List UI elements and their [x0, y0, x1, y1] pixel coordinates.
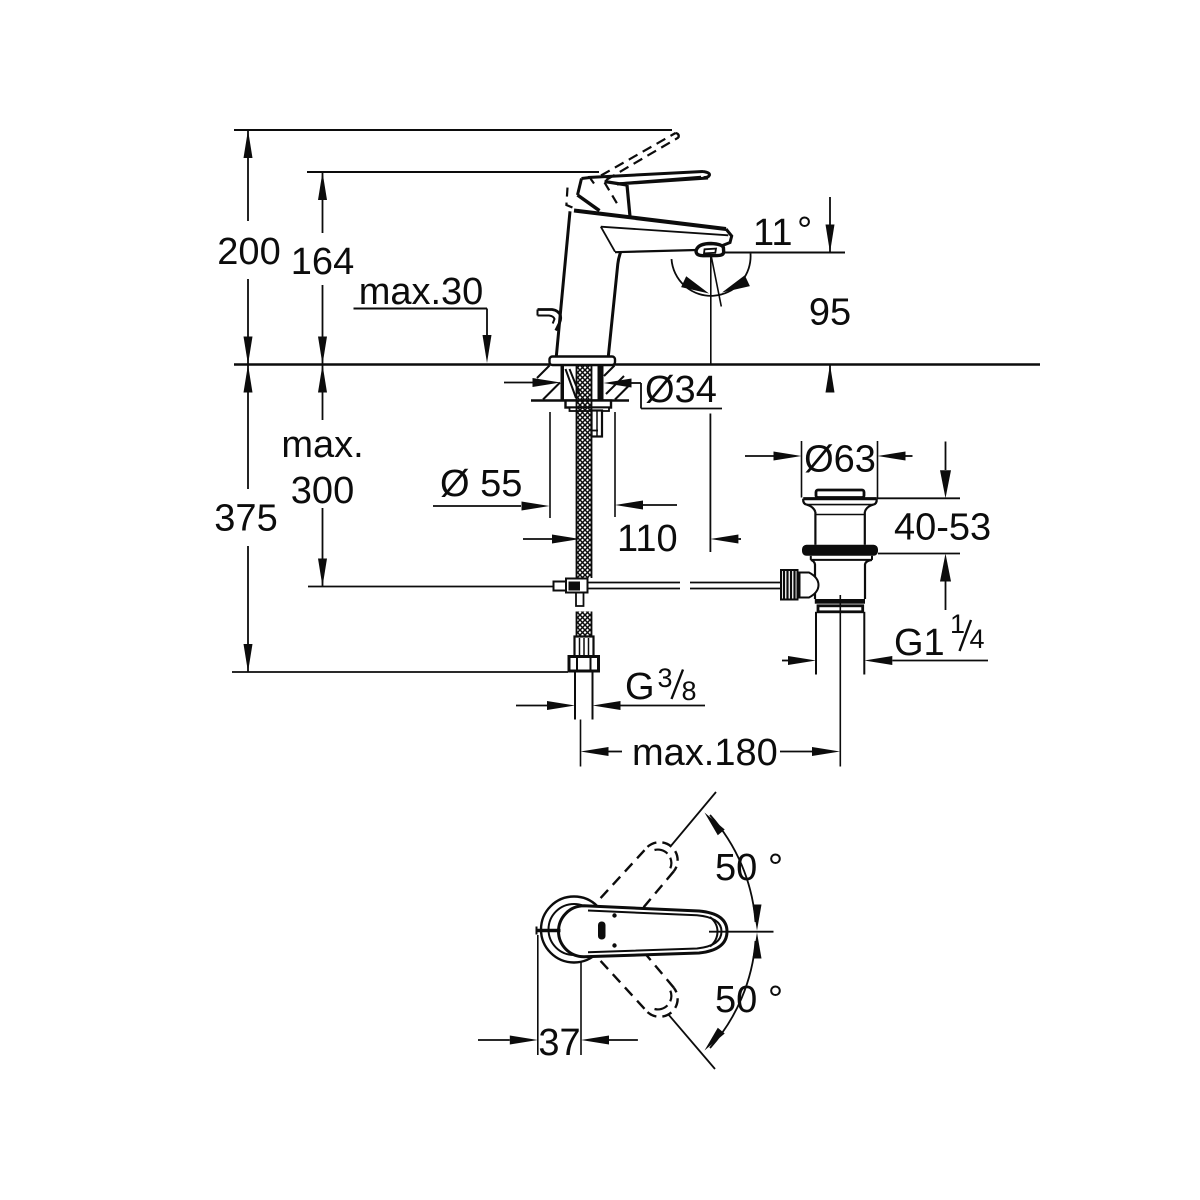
svg-text:164: 164: [291, 241, 354, 283]
spout angle reference line: [723, 252, 846, 254]
countertop hatching right: [604, 366, 615, 377]
svg-text:37: 37: [538, 1022, 580, 1064]
svg-text:375: 375: [214, 498, 277, 540]
svg-text:110: 110: [617, 518, 678, 560]
drain gasket bottom reference line: [878, 553, 960, 555]
plan view 50deg lower arc: [710, 941, 756, 1048]
dimension diameter34 line: [504, 382, 533, 384]
pop-up rod left end cap: [554, 582, 567, 591]
drain body lower ring outline: [818, 606, 863, 612]
dimension diameter55 extension lines: [549, 412, 551, 518]
svg-text:3: 3: [658, 663, 673, 693]
hose connection nut: [569, 657, 599, 672]
countertop reference line: [234, 363, 1040, 365]
faucet top face: [605, 182, 628, 186]
shank thread lines: [566, 369, 577, 398]
mounting washer: [566, 401, 612, 408]
drain side knurled knob: [781, 570, 798, 600]
dimension 37 line: [478, 1039, 510, 1041]
drain tailpipe: [815, 612, 817, 675]
dimension 37 extension lines: [537, 935, 539, 1055]
flexible hose upper braid: [577, 366, 592, 579]
dimension 40-53 line: [945, 442, 947, 471]
countertop bottom line: [531, 399, 629, 401]
outlet centerline extension below deck: [709, 414, 711, 553]
svg-text:95: 95: [809, 292, 851, 334]
svg-text:Ø 55: Ø 55: [440, 463, 522, 505]
dimension 200 line: [247, 130, 249, 221]
plan view 50deg upper line: [670, 792, 716, 847]
aerator: [696, 244, 724, 256]
svg-text:max.: max.: [281, 424, 363, 466]
countertop hatching left: [537, 366, 550, 379]
dimension diameter63 line: [745, 455, 774, 457]
svg-text:G1: G1: [894, 622, 945, 664]
plan view handle inner contour: [588, 911, 722, 953]
plan view body outer circle: [541, 897, 607, 963]
svg-text:300: 300: [291, 470, 354, 512]
faucet body right edge: [608, 253, 620, 357]
svg-text:max.180: max.180: [632, 732, 778, 774]
spout inner top line: [601, 227, 729, 236]
spout inner left chamfer: [601, 227, 615, 252]
handle root left edge: [578, 179, 582, 196]
dimension 95 line: [829, 197, 831, 253]
drain centerline: [839, 595, 841, 767]
pop-up horizontal rod left segment: [588, 582, 681, 584]
pop-up rod socket: [592, 411, 603, 437]
handle lever tip: [703, 172, 709, 178]
svg-text:40-53: 40-53: [894, 507, 991, 549]
dimension diameter34 leader: [640, 383, 642, 409]
dimension max.300 line: [322, 365, 324, 421]
svg-text:1: 1: [950, 609, 965, 639]
svg-text:4: 4: [970, 624, 985, 654]
plan view handle: [559, 906, 727, 957]
plan view raised handle ghost upper: [601, 847, 648, 898]
plan view handle slot: [598, 922, 606, 940]
plan view 50deg upper arc: [710, 815, 756, 922]
handle root lower diagonal: [578, 195, 600, 211]
handle root top edge: [582, 176, 590, 180]
flexible hose lower braid: [577, 612, 592, 637]
svg-text:50 °: 50 °: [715, 847, 783, 889]
plan view body inner circle: [549, 904, 600, 955]
spout angle arc: [672, 254, 751, 296]
handle lever underside: [617, 178, 708, 184]
raised handle lever dashed line 1: [601, 133, 676, 176]
svg-text:Ø63: Ø63: [804, 439, 876, 481]
plan view raised handle ghost lower: [601, 961, 648, 1012]
hose tube centerline extension: [580, 720, 582, 767]
reference line top of lever (164 dim): [307, 171, 599, 173]
drain gasket retainer lip: [810, 556, 812, 560]
dimension 164 line: [322, 172, 324, 233]
plan view 50deg lower line: [668, 1014, 715, 1069]
dimension max.30 leader: [354, 308, 488, 310]
drain rubber gasket: [802, 545, 878, 556]
spout outlet centerline: [710, 255, 712, 365]
plan view handle inner end arc: [710, 917, 718, 947]
svg-text:°: °: [797, 210, 812, 252]
dimension 110 line: [523, 538, 552, 540]
mounting nut lip: [570, 408, 610, 412]
drain flange top reference line: [877, 497, 960, 499]
faucet upper column right edge: [627, 185, 630, 217]
reference line top of lifted lever (200 dim): [234, 129, 672, 131]
spout top edge: [574, 211, 726, 230]
drain side knob connector: [800, 573, 819, 598]
svg-text:8: 8: [682, 676, 697, 706]
dimension max.300 bottom reference line: [308, 586, 554, 588]
dimension diameter55 arrow right: [615, 501, 643, 510]
hose connection tube: [574, 671, 576, 720]
dimension 375 bottom reference line: [232, 671, 568, 673]
raised handle lever dashed line 2: [606, 138, 679, 181]
spout tip: [718, 229, 732, 248]
escutcheon plate: [550, 357, 616, 366]
svg-text:11: 11: [753, 212, 792, 254]
dimension diameter55 leader: [433, 505, 521, 507]
plan view centerline right: [709, 931, 774, 933]
dimension 375 line: [247, 365, 249, 490]
handle lever top edge: [588, 172, 703, 178]
dimension diameter63 extension lines: [801, 441, 803, 498]
hose crimp sleeve: [575, 637, 594, 657]
dimension G1-1/4 line: [782, 660, 788, 662]
pop-up horizontal rod right segment: [690, 582, 781, 584]
pop-up rod hose clamp block: [566, 579, 588, 593]
raised handle root dashed outline: [566, 188, 579, 211]
svg-text:G: G: [625, 666, 655, 708]
handle lever inner line: [620, 177, 701, 184]
svg-text:200: 200: [217, 231, 280, 273]
spout angle arc arrows: [681, 276, 709, 293]
drain body below gasket: [811, 560, 815, 599]
plan view handle dots: [612, 913, 616, 917]
dimension G3/8 line: [516, 705, 549, 707]
svg-text:Ø34: Ø34: [645, 369, 717, 411]
svg-text:50 °: 50 °: [715, 979, 783, 1021]
drain flange: [803, 497, 877, 500]
spout angle tilted line: [711, 255, 721, 307]
pop-up rod stub below clamp: [576, 593, 584, 607]
threaded shank right wall: [598, 366, 604, 401]
drain pull-rod knob: [538, 310, 561, 331]
drain push cap: [816, 490, 864, 498]
dimension max.180 line: [581, 747, 609, 756]
threaded shank left wall: [561, 366, 565, 401]
spout underside: [615, 250, 697, 252]
drain body lower ring solid: [815, 599, 865, 604]
raised handle lever tip: [676, 133, 679, 138]
svg-text:max.30: max.30: [359, 271, 484, 313]
faucet body left edge: [556, 211, 570, 356]
plan view temperature pin: [537, 929, 561, 933]
